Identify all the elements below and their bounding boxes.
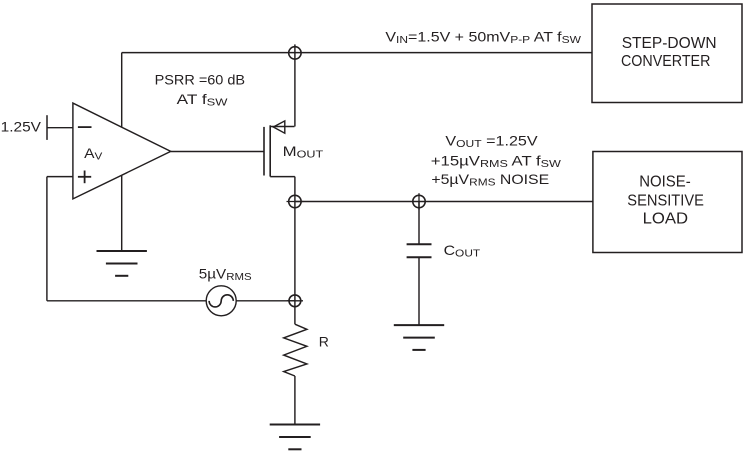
wire node to resistor <box>294 301 296 324</box>
svg-text:LOAD: LOAD <box>643 211 689 228</box>
op-amp plus input symbol <box>78 171 91 184</box>
capacitor COUT plates <box>407 244 432 257</box>
box NOISE-SENSITIVE LOAD <box>593 152 742 253</box>
svg-text:VIN=1.5V + 50mVP-P AT fSW: VIN=1.5V + 50mVP-P AT fSW <box>385 28 581 46</box>
wire op-amp supply drop <box>121 53 123 128</box>
node junction top rail <box>289 47 301 59</box>
node junction at COUT <box>413 193 425 210</box>
node junction at MOUT source / VOUT rail <box>287 195 304 207</box>
svg-text:SENSITIVE: SENSITIVE <box>627 192 704 209</box>
op-amp U1 triangle <box>73 103 171 199</box>
transistor MOUT arrow <box>273 121 285 133</box>
transistor MOUT bottom tap wire <box>270 176 295 178</box>
wire COUT top <box>418 202 420 245</box>
transistor MOUT gate bar <box>263 127 265 176</box>
wire COUT bottom to ground <box>418 257 420 325</box>
node junction noise/resistor <box>287 295 303 307</box>
resistor R zigzag <box>284 324 307 376</box>
noise source V1 circle <box>206 286 236 316</box>
wire op-amp to ground <box>121 175 123 251</box>
wire feedback vertical <box>46 177 48 301</box>
wire plus input feedback left <box>47 176 73 178</box>
ground COUT <box>394 325 444 350</box>
box STEP-DOWN CONVERTER <box>592 4 742 103</box>
wire op-amp output to gate <box>171 151 264 153</box>
wire MOSFET drain vertical to rail <box>294 44 296 126</box>
noise source sine wave <box>209 295 233 307</box>
transistor MOUT channel bar <box>269 125 271 176</box>
svg-text:PSRR =60 dB: PSRR =60 dB <box>155 72 246 88</box>
svg-text:R: R <box>319 333 329 349</box>
svg-text:STEP-DOWN: STEP-DOWN <box>622 35 717 52</box>
svg-text:CONVERTER: CONVERTER <box>621 53 710 70</box>
wire MOUT source down to node <box>294 177 296 202</box>
op-amp minus input symbol <box>78 126 92 128</box>
ground resistor <box>270 425 320 450</box>
wire node down to noise node <box>294 202 296 301</box>
ground op-amp <box>97 251 147 276</box>
wire top rail VIN <box>122 52 592 54</box>
svg-text:1.25V: 1.25V <box>1 118 42 134</box>
wire 1.25V source to inverting input <box>47 127 73 129</box>
wire feedback bottom to noise source <box>47 300 206 302</box>
wire VOUT rail <box>295 201 593 203</box>
svg-text:NOISE-: NOISE- <box>639 174 691 191</box>
1.25V source tick <box>46 115 48 140</box>
transistor MOUT top tap wire <box>270 126 294 128</box>
wire noise source to node <box>236 300 295 302</box>
wire resistor to ground <box>294 376 296 425</box>
